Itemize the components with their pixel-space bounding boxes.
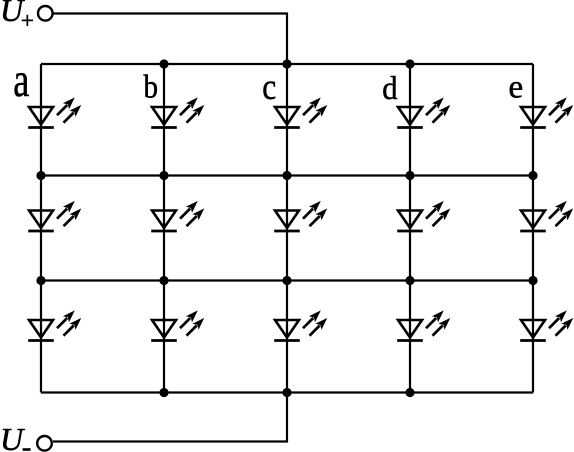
svg-text:e: e <box>509 70 524 106</box>
svg-text:a: a <box>13 54 29 107</box>
svg-text:+: + <box>21 8 34 33</box>
svg-text:U: U <box>0 421 25 452</box>
svg-text:d: d <box>382 70 397 106</box>
svg-text:b: b <box>144 68 159 105</box>
svg-text:c: c <box>262 67 276 108</box>
